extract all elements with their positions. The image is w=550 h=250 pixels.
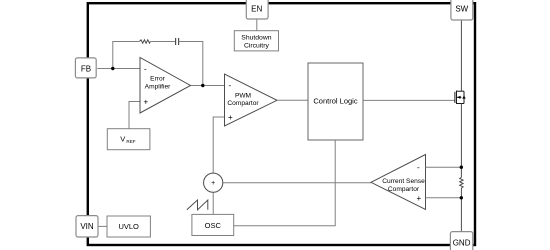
- wire summing node to OSC: [212, 192, 214, 214]
- Control Logic box: [308, 63, 363, 140]
- wire current sense inverting input to SW net: [426, 166, 462, 168]
- svg-text:Control Logic: Control Logic: [313, 97, 357, 106]
- transistor Q1 NMOS power switch: [455, 91, 466, 105]
- svg-text:-: -: [144, 64, 147, 73]
- wire FB to error amp inverting input: [97, 68, 140, 70]
- op-amp U1 Error Amplifier: [140, 58, 191, 114]
- svg-text:+: +: [211, 180, 215, 187]
- wire VIN to UVLO: [98, 225, 107, 227]
- pin SW: [451, 0, 473, 20]
- svg-text:Error: Error: [150, 76, 165, 83]
- wire MOSFET source down to sense node: [460, 104, 462, 178]
- svg-text:SW: SW: [455, 5, 468, 14]
- node error amp output junction: [201, 84, 204, 87]
- Vref reference box: [107, 129, 150, 150]
- comparator U2 PWM Compartor: [225, 74, 278, 126]
- svg-text:Amplifier: Amplifier: [145, 83, 171, 90]
- OSC oscillator box: [192, 214, 234, 235]
- resistor R2 current sense: [460, 177, 463, 188]
- capacitor C1 feedback: [176, 38, 179, 45]
- wire capacitor to loop right vertical: [179, 41, 203, 43]
- svg-text:VIN: VIN: [80, 222, 94, 231]
- svg-text:-: -: [417, 163, 420, 172]
- wire feedback loop top horizontal (left of resistor): [112, 41, 139, 43]
- svg-text:REF: REF: [126, 139, 135, 144]
- svg-text:Compartor: Compartor: [388, 186, 420, 193]
- Shutdown Circuitry box: [234, 31, 278, 51]
- svg-text:UVLO: UVLO: [118, 222, 139, 231]
- pin EN: [246, 0, 268, 19]
- pin GND: [450, 232, 472, 250]
- wire current sense non-inverting input to sense resistor bottom: [426, 197, 462, 199]
- wire feedback loop left vertical: [112, 42, 114, 69]
- node current sense top junction: [460, 166, 463, 169]
- UVLO box: [107, 216, 150, 237]
- wire EN to shutdown circuitry: [256, 19, 258, 31]
- comparator U3 Current Sense Compartor: [371, 155, 426, 210]
- svg-text:+: +: [144, 98, 149, 107]
- wire PWM output to control logic: [277, 99, 308, 101]
- svg-text:Current Sense: Current Sense: [382, 178, 425, 185]
- wire SW pin down to MOSFET drain: [460, 19, 462, 91]
- wire summing node to current sense apex: [223, 182, 371, 184]
- svg-text:Compartor: Compartor: [227, 100, 259, 107]
- wire between resistor and capacitor: [150, 41, 175, 43]
- wire sense resistor to GND pin: [460, 188, 462, 232]
- node FB junction: [111, 67, 114, 70]
- pin VIN: [76, 216, 98, 237]
- wire control logic to OSC (L shaped): [234, 140, 336, 226]
- sawtooth waveform symbol: [187, 200, 208, 210]
- wire feedback loop right vertical: [202, 41, 204, 86]
- svg-text:Shutdown: Shutdown: [241, 35, 271, 42]
- svg-text:OSC: OSC: [205, 221, 222, 230]
- wire PWM non-inverting input from summing node: [213, 117, 224, 173]
- wire control logic to MOSFET gate: [363, 99, 455, 101]
- svg-text:V: V: [120, 135, 125, 144]
- svg-text:PWM: PWM: [235, 92, 251, 99]
- svg-text:EN: EN: [251, 5, 262, 14]
- pin FB: [75, 58, 96, 78]
- svg-text:-: -: [229, 81, 232, 90]
- wire Vref to error amp non-inverting input: [129, 102, 140, 129]
- wire error amp output to PWM comparator: [190, 85, 225, 87]
- summing node (+): [204, 173, 223, 192]
- svg-text:+: +: [417, 194, 422, 203]
- resistor R1 feedback: [139, 40, 150, 43]
- IC boundary border: [88, 3, 475, 245]
- svg-text:Circuitry: Circuitry: [244, 43, 270, 50]
- svg-text:GND: GND: [453, 239, 471, 248]
- node current sense bottom junction: [460, 196, 463, 199]
- svg-text:+: +: [228, 113, 233, 122]
- svg-text:FB: FB: [81, 64, 91, 73]
